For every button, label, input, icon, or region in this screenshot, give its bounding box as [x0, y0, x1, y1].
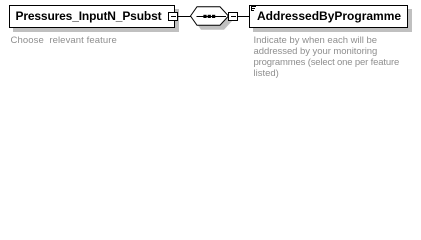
element box Pressures_InputN_Psubst: [9, 5, 175, 28]
element box AddressedByProgramme: [249, 5, 408, 28]
annotation: parent: [11, 35, 117, 46]
sequence compositor octagon: [0, 0, 421, 85]
annotation marker icon inside child box: [0, 0, 421, 85]
label Pressures_InputN_Psubst: [16, 9, 162, 23]
wire parent to sequence: [178, 16, 191, 17]
annotation: child: [254, 35, 400, 79]
collapse button (minus) on sequence: [228, 12, 238, 21]
sequence interior line: [197, 16, 227, 18]
label AddressedByProgramme: [257, 9, 401, 23]
collapse button (minus) on parent box: [168, 12, 178, 21]
sequence body: [191, 7, 229, 26]
wire sequence to child: [238, 16, 249, 17]
sequence dots: [203, 15, 206, 18]
sequence shadow: [195, 11, 233, 30]
